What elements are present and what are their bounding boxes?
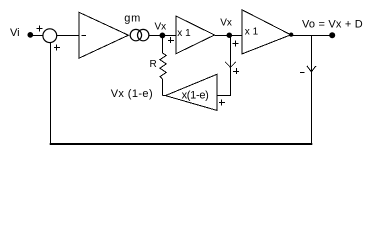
svg-text:Vx: Vx xyxy=(220,18,232,29)
svg-text:Vx (1-e): Vx (1-e) xyxy=(111,88,153,100)
svg-text:gm: gm xyxy=(124,12,141,24)
svg-text:R: R xyxy=(150,59,157,70)
svg-text:Vx: Vx xyxy=(155,22,167,33)
svg-text:Vo = Vx + D: Vo = Vx + D xyxy=(302,19,363,31)
svg-text:x 1: x 1 xyxy=(177,28,191,39)
svg-text:x(1-e): x(1-e) xyxy=(182,89,209,101)
svg-text:Vi: Vi xyxy=(10,27,20,39)
svg-text:x 1: x 1 xyxy=(245,27,259,38)
